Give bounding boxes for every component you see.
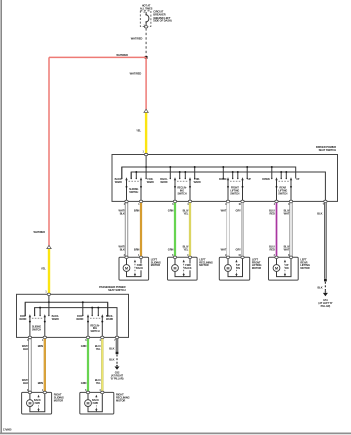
svg-text:FWD: FWD	[93, 402, 99, 405]
left reclining motor M2	[168, 254, 213, 280]
svg-text:MOTOR: MOTOR	[252, 266, 261, 270]
svg-text:YEL: YEL	[183, 212, 188, 216]
svg-text:DN: DN	[236, 267, 240, 270]
svg-text:MOTOR: MOTOR	[199, 263, 208, 267]
inline connector on BLK	[324, 279, 327, 282]
svg-text:17d005: 17d005	[3, 428, 12, 432]
svg-text:YEL: YEL	[136, 129, 141, 133]
svg-text:SWITCH: SWITCH	[230, 193, 239, 196]
splice connector	[144, 109, 148, 112]
svg-text:MOTOR: MOTOR	[54, 398, 63, 402]
svg-text:PILLAR): PILLAR)	[321, 304, 331, 308]
passenger switch bottom pins	[27, 336, 119, 342]
svg-text:SWITCH: SWITCH	[90, 330, 99, 333]
wire WHT/RED left vertical	[48, 57, 50, 245]
svg-text:WHT/RED: WHT/RED	[116, 53, 128, 57]
right reclining motor M6	[80, 389, 130, 414]
svg-text:M: M	[87, 401, 90, 405]
wire BLU/YEL W4	[183, 203, 190, 256]
wire GRN W3	[168, 203, 175, 256]
wire BLU/RED W7	[269, 203, 276, 256]
svg-text:RED: RED	[270, 212, 275, 216]
ground G52	[111, 365, 124, 381]
svg-text:YEL: YEL	[96, 381, 101, 385]
svg-text:WHT: WHT	[221, 209, 227, 213]
svg-text:WHT/RED: WHT/RED	[131, 37, 143, 41]
svg-text:RED: RED	[270, 248, 275, 252]
svg-text:SEAT SWITCH: SEAT SWITCH	[108, 288, 126, 292]
svg-text:WARD: WARD	[52, 318, 59, 321]
svg-text:M: M	[227, 266, 230, 270]
splice connector	[47, 245, 51, 248]
bus ground passenger	[35, 308, 117, 338]
svg-text:SEAT SWITCH: SEAT SWITCH	[319, 148, 337, 152]
svg-text:BRN: BRN	[134, 248, 140, 252]
svg-text:FWD: FWD	[35, 402, 41, 405]
svg-text:GRN: GRN	[81, 381, 87, 385]
svg-text:DN: DN	[285, 267, 289, 270]
wire WHT/BLK P1	[22, 339, 31, 391]
wire BLK to ground G51	[317, 203, 325, 279]
reclining switch S2 (driver)	[160, 166, 201, 201]
svg-text:BLK: BLK	[120, 212, 125, 216]
svg-text:BLK: BLK	[317, 212, 322, 216]
svg-text:WHT/RED: WHT/RED	[130, 72, 142, 76]
svg-text:WHT: WHT	[221, 248, 227, 252]
circuit breaker label	[153, 10, 171, 23]
circuit breaker CB	[143, 12, 148, 27]
svg-text:SWITCH: SWITCH	[32, 329, 41, 332]
right sliding motor M5	[22, 390, 64, 414]
driver power seat switch label	[316, 145, 336, 152]
svg-text:GRN: GRN	[168, 209, 174, 213]
svg-text:SIDE OF DASH): SIDE OF DASH)	[153, 19, 171, 23]
svg-text:BLK: BLK	[109, 347, 114, 351]
wire BLK dashed segment	[318, 282, 326, 291]
wire BLU/YEL P4	[95, 339, 102, 391]
svg-text:YEL: YEL	[41, 266, 46, 270]
sliding switch S5 (passenger)	[19, 302, 59, 337]
svg-text:SWITCH: SWITCH	[129, 191, 138, 194]
svg-text:WARD: WARD	[106, 318, 113, 321]
driver switch bottom pins	[124, 200, 327, 206]
wire YEL to passenger switch	[48, 249, 50, 293]
svg-text:WARD: WARD	[76, 318, 83, 321]
svg-text:WHT: WHT	[284, 248, 290, 252]
svg-text:'B' PILLAR): 'B' PILLAR)	[111, 377, 124, 381]
front lifting switch S3 (driver)	[219, 166, 251, 201]
wire WHT/RED dashed from breaker	[145, 28, 147, 56]
label HOT AT ALL TIMES	[140, 5, 153, 11]
svg-text:WARD: WARD	[115, 181, 122, 184]
junction node	[145, 56, 148, 59]
svg-text:WARD: WARD	[160, 181, 167, 184]
svg-text:GRY: GRY	[236, 209, 242, 213]
svg-text:BREAKER: BREAKER	[153, 12, 165, 16]
svg-text:GRN: GRN	[168, 248, 174, 252]
svg-text:WARD: WARD	[194, 181, 201, 184]
svg-text:ALL TIMES: ALL TIMES	[140, 7, 153, 10]
svg-text:GRY: GRY	[236, 248, 242, 252]
svg-text:UP: UP	[248, 178, 252, 181]
svg-text:BLK: BLK	[23, 347, 28, 351]
wire GRN P3	[81, 339, 88, 391]
passenger power seat switch box U2	[17, 294, 129, 337]
sliding switch S1 (driver)	[115, 167, 155, 201]
bus B+ passenger	[25, 302, 108, 315]
wire WHT W5	[221, 203, 230, 256]
wire BRN P2	[38, 339, 45, 391]
connector pin at breaker output	[144, 26, 147, 28]
wire BLU/WHT W8	[284, 203, 293, 256]
wire BRN W2	[134, 203, 141, 256]
svg-text:SWITCH: SWITCH	[177, 193, 186, 196]
bus ground	[131, 172, 325, 201]
rear lifting switch S4 (driver)	[262, 166, 300, 201]
wire BLK dashed segment	[109, 355, 117, 365]
svg-text:YEL: YEL	[96, 347, 101, 351]
junction block dashed box	[140, 11, 151, 27]
wire WHT/BLK W1	[118, 203, 127, 256]
left rear lifting motor M4	[269, 255, 310, 280]
svg-text:WHT/RED: WHT/RED	[33, 230, 45, 234]
svg-text:BLK: BLK	[109, 357, 114, 361]
bus B+	[122, 167, 296, 179]
svg-text:BRN: BRN	[134, 209, 140, 213]
svg-text:DOWN: DOWN	[219, 178, 227, 181]
svg-text:SWITCH: SWITCH	[278, 193, 287, 196]
driver power seat switch box U1	[112, 155, 338, 202]
feed wire from pin 1	[48, 296, 50, 316]
left front lifting motor M3	[219, 255, 261, 280]
ground G51	[318, 291, 332, 308]
svg-text:UP: UP	[296, 178, 300, 181]
svg-text:BLK: BLK	[23, 381, 28, 385]
passenger power seat switch label	[99, 285, 126, 292]
svg-text:BRN: BRN	[38, 381, 44, 385]
svg-text:YEL: YEL	[183, 248, 188, 252]
svg-text:M: M	[28, 401, 31, 405]
inline connector on BLK	[116, 352, 119, 355]
svg-text:BLK: BLK	[318, 285, 323, 289]
svg-text:BACK: BACK	[185, 267, 192, 270]
svg-text:BRN: BRN	[38, 344, 44, 348]
wire YEL to driver switch	[145, 113, 147, 153]
svg-text:MOTOR: MOTOR	[116, 398, 125, 402]
wire GRY W6	[236, 203, 243, 256]
reclining switch S6 (passenger)	[76, 301, 113, 337]
svg-text:BLK: BLK	[120, 248, 125, 252]
svg-text:DOWN: DOWN	[262, 178, 270, 181]
svg-text:WARD: WARD	[19, 318, 26, 321]
svg-text:WARD: WARD	[147, 181, 154, 184]
wire WHT/RED right vertical	[145, 57, 147, 109]
svg-text:WHT: WHT	[284, 212, 290, 216]
wire WHT/RED horizontal	[49, 56, 146, 58]
svg-text:GRN: GRN	[81, 344, 87, 348]
svg-text:M: M	[125, 266, 128, 270]
svg-text:BACK: BACK	[136, 267, 143, 270]
svg-text:M: M	[275, 266, 278, 270]
feed wire from pin 1	[145, 156, 147, 179]
svg-text:MOTOR: MOTOR	[300, 266, 309, 270]
left sliding motor M1	[119, 255, 161, 280]
svg-text:M: M	[174, 266, 177, 270]
svg-text:MOTOR: MOTOR	[151, 263, 160, 267]
wire BLK to ground G52	[109, 339, 117, 352]
